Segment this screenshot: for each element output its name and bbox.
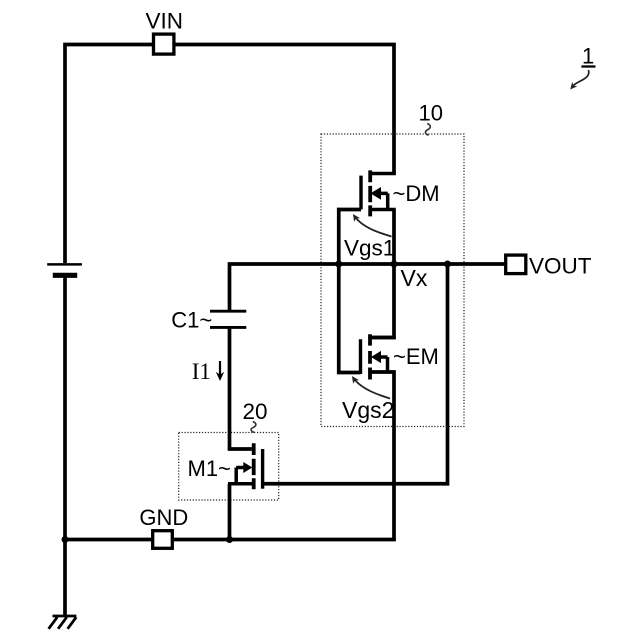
svg-text:I1: I1 <box>192 359 211 384</box>
svg-text:VOUT: VOUT <box>529 254 592 279</box>
svg-text:C1~: C1~ <box>171 308 212 333</box>
svg-text:Vgs2: Vgs2 <box>342 397 394 423</box>
svg-text:~DM: ~DM <box>393 181 440 206</box>
svg-text:~EM: ~EM <box>393 344 439 369</box>
svg-text:M1~: M1~ <box>188 456 231 481</box>
svg-text:GND: GND <box>139 505 188 530</box>
svg-text:VIN: VIN <box>146 9 184 34</box>
svg-text:20: 20 <box>243 399 268 424</box>
svg-text:10: 10 <box>419 100 443 125</box>
svg-text:Vgs1: Vgs1 <box>344 236 395 261</box>
svg-text:Vx: Vx <box>401 265 428 291</box>
svg-text:1: 1 <box>582 44 594 69</box>
